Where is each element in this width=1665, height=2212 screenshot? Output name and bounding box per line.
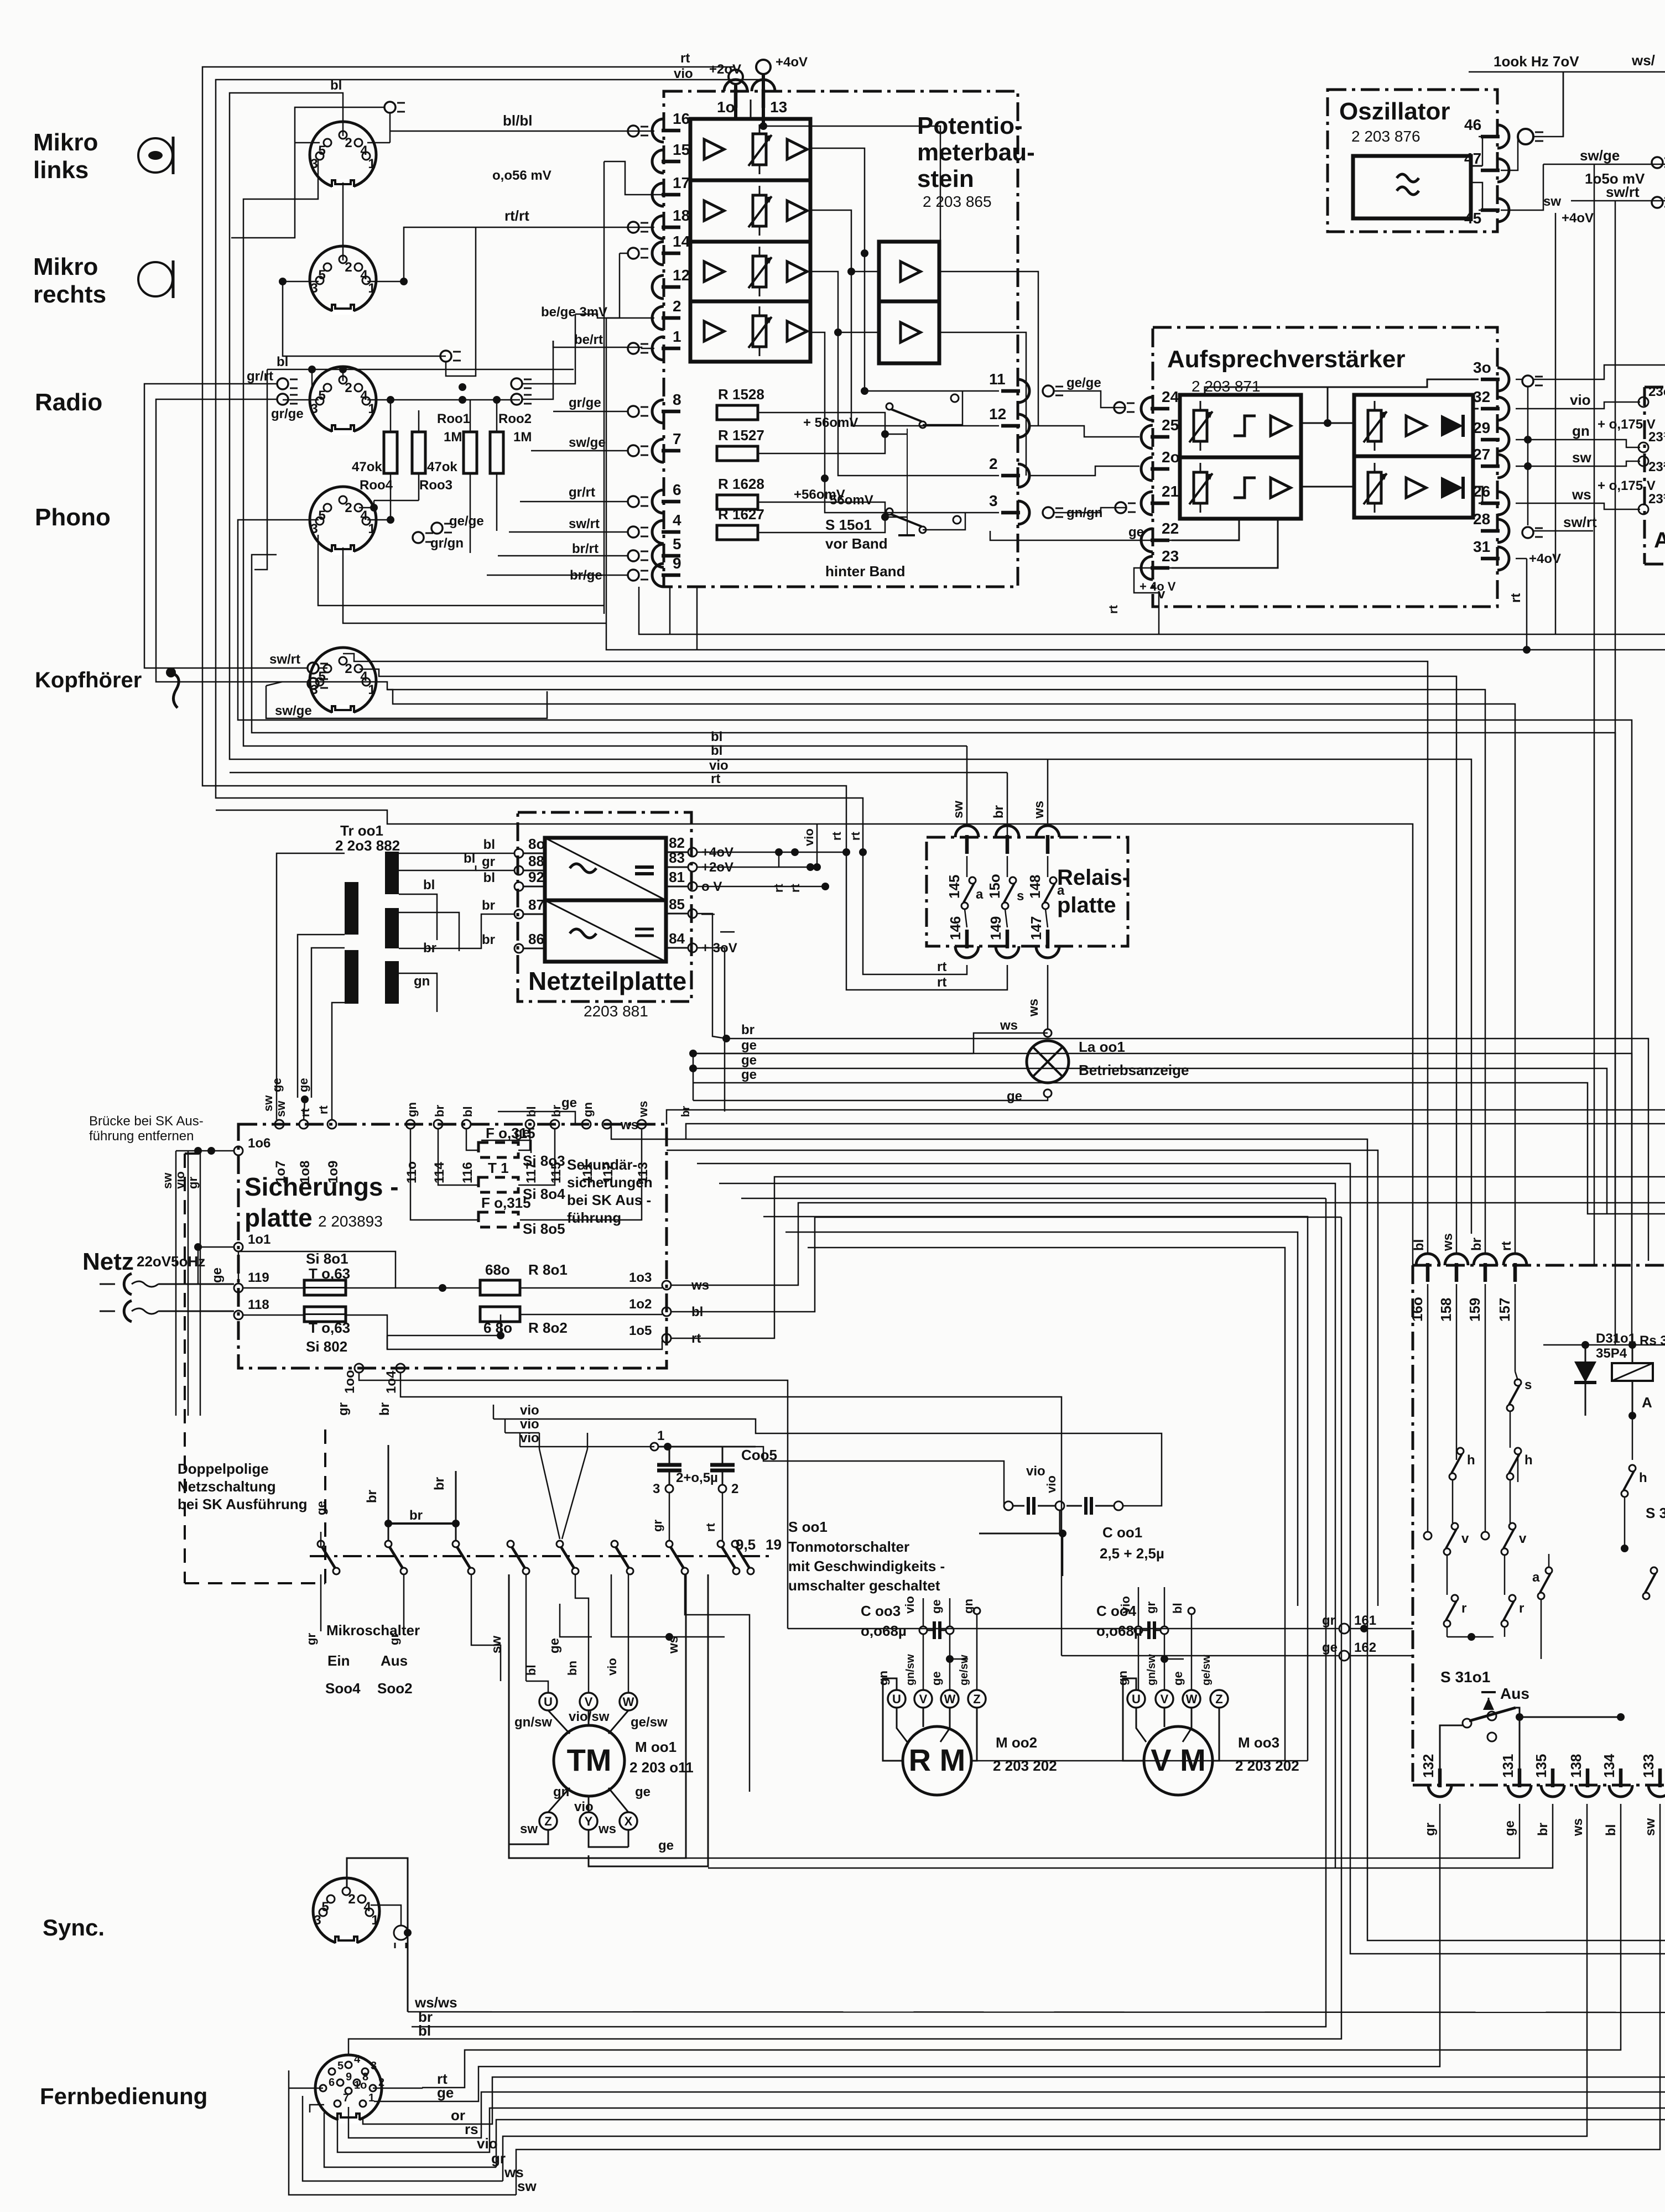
svg-text:rechts: rechts xyxy=(33,281,106,308)
terminal 1o5 xyxy=(629,1323,701,1346)
svg-text:sw: sw xyxy=(520,1822,538,1837)
label VM colors xyxy=(1116,1654,1213,1686)
svg-text:Z: Z xyxy=(973,1692,980,1706)
terminal 23o xyxy=(1638,384,1665,407)
svg-text:Aus: Aus xyxy=(381,1652,408,1669)
terminal 85 netzteil right xyxy=(666,896,715,921)
svg-text:gn: gn xyxy=(405,1102,419,1117)
svg-text:C oo3: C oo3 xyxy=(861,1603,901,1619)
svg-text:Y: Y xyxy=(585,1814,593,1828)
svg-text:1o4: 1o4 xyxy=(384,1370,399,1394)
svg-text:U: U xyxy=(892,1692,901,1706)
svg-text:M oo1: M oo1 xyxy=(635,1739,677,1755)
connector pin 149 relais bottom xyxy=(987,916,1019,958)
wire bus m6 xyxy=(387,690,1515,1254)
wire amp ch3 out xyxy=(810,272,999,476)
label Mikro rechts xyxy=(33,253,106,308)
label Radio xyxy=(35,389,102,416)
wire sw drop1 xyxy=(471,1574,501,1681)
connector pin 4 potbaustein xyxy=(652,512,681,544)
svg-text:ge/ge: ge/ge xyxy=(1066,375,1101,390)
resistor R1528 xyxy=(717,386,764,420)
terminal kopfh b xyxy=(308,678,328,689)
switch tonmotor 8 xyxy=(717,1541,740,1574)
wire 157 drop xyxy=(1515,1284,1516,1371)
wire mikro rechts right xyxy=(404,227,654,281)
module box right partial xyxy=(1645,387,1665,564)
svg-text:R 1628: R 1628 xyxy=(718,476,764,492)
svg-text:rt: rt xyxy=(849,831,862,841)
wire tm u xyxy=(526,1574,548,1693)
label Netz xyxy=(82,1248,205,1275)
motor terminal V xyxy=(565,1661,597,1710)
wire amp ch4 out xyxy=(810,332,999,513)
wire Coo1 down xyxy=(1062,1533,1064,1576)
module box Potentiometerbaustein xyxy=(664,91,1018,587)
svg-text:147: 147 xyxy=(1028,916,1044,940)
svg-text:br: br xyxy=(433,1105,446,1117)
svg-text:rt: rt xyxy=(937,975,946,990)
label be/ge 3mV xyxy=(541,305,607,320)
svg-text:3: 3 xyxy=(310,521,318,536)
connector pin 148 relais xyxy=(1027,801,1059,899)
svg-text:5: 5 xyxy=(337,2060,344,2072)
wire Coo1 feeds xyxy=(756,1447,1045,1506)
label 1ookHz xyxy=(1494,53,1579,70)
wire fern gr xyxy=(324,2112,1665,2167)
svg-text:1o6: 1o6 xyxy=(248,1136,270,1151)
motor RM xyxy=(903,1726,971,1795)
svg-text:a: a xyxy=(976,887,984,902)
amp 2 row1 xyxy=(901,262,920,281)
svg-text:116: 116 xyxy=(460,1162,475,1183)
label M oo1 xyxy=(629,1739,694,1776)
label ws fern xyxy=(504,2164,524,2180)
mains plug lower xyxy=(100,1301,234,1322)
svg-text:1o1: 1o1 xyxy=(248,1232,270,1247)
svg-text:S oo1: S oo1 xyxy=(788,1519,828,1535)
wire 3o out xyxy=(1516,365,1665,379)
svg-text:sw/rt: sw/rt xyxy=(569,517,600,531)
terminal 5 xyxy=(628,550,648,561)
svg-text:2 203 o11: 2 203 o11 xyxy=(629,1759,694,1776)
connector pin 135 bottom xyxy=(1533,1754,1564,1797)
terminal 11o sicherung xyxy=(404,1102,419,1183)
connector pin 45 oszillator xyxy=(1464,199,1509,227)
svg-text:br/rt: br/rt xyxy=(572,541,599,556)
svg-text:2: 2 xyxy=(345,380,352,395)
connector pin 1 potbaustein xyxy=(652,328,681,360)
fuse Si8o2 xyxy=(304,1307,350,1355)
svg-text:Brücke bei SK Aus-: Brücke bei SK Aus- xyxy=(89,1114,204,1129)
wire 22 23 xyxy=(990,525,1176,634)
wire tm frame xyxy=(509,1574,708,1866)
wire 3o xyxy=(1328,379,1479,387)
label o,o56 mV xyxy=(492,168,551,183)
svg-text:+ o,175 V: + o,175 V xyxy=(1598,417,1656,432)
svg-text:2 203893: 2 203893 xyxy=(318,1213,383,1230)
terminal 1o1 xyxy=(234,1232,270,1251)
svg-text:5: 5 xyxy=(318,268,325,283)
wire diode top xyxy=(1543,1341,1665,1349)
wire resistor tops xyxy=(391,400,497,432)
wire 82 +40V xyxy=(697,848,850,867)
connector pin 7 potbaustein xyxy=(652,430,681,462)
terminal 13 top xyxy=(756,60,771,74)
svg-text:27: 27 xyxy=(1473,446,1490,463)
label gr/rt p6 xyxy=(569,485,595,500)
wire 11 to 24 xyxy=(1054,391,1125,408)
wire rt drop xyxy=(1508,559,1531,654)
switch tonmotor 1 xyxy=(318,1541,340,1574)
svg-text:sw: sw xyxy=(1543,194,1561,209)
wire 15-17 xyxy=(604,161,678,614)
svg-text:vio: vio xyxy=(1044,1475,1058,1493)
svg-text:9: 9 xyxy=(346,2071,352,2083)
label M oo2 xyxy=(993,1734,1057,1774)
wire 158 drop xyxy=(1456,1284,1458,1460)
svg-text:23¹: 23¹ xyxy=(1648,430,1665,445)
svg-text:2 203 202: 2 203 202 xyxy=(1235,1757,1299,1774)
svg-text:23²: 23² xyxy=(1648,460,1665,474)
svg-text:sw: sw xyxy=(160,1172,174,1189)
wire poti bottom drops xyxy=(670,587,697,650)
wire amp2 out1 xyxy=(939,272,1038,426)
svg-text:2: 2 xyxy=(345,661,352,676)
svg-text:ge: ge xyxy=(635,1785,651,1799)
wire drop x xyxy=(685,1574,750,1792)
wire amp2 in2 xyxy=(838,332,879,333)
svg-text:6: 6 xyxy=(329,2077,335,2089)
svg-text:a: a xyxy=(1532,1570,1540,1585)
connector pin 12 potbaustein xyxy=(652,267,690,299)
svg-text:Phono: Phono xyxy=(35,504,111,531)
wire right sw verts xyxy=(1447,1371,1518,1595)
wire fuse3 loop xyxy=(466,1129,530,1150)
svg-text:sw/ge: sw/ge xyxy=(569,435,606,450)
terminal 1o8 sicherung xyxy=(298,1108,313,1183)
terminal 118 xyxy=(234,1297,269,1319)
motor RM terminal U xyxy=(888,1690,906,1708)
svg-text:135: 135 xyxy=(1533,1754,1549,1778)
svg-text:ge: ge xyxy=(314,1501,328,1515)
connector Fernbedienung DIN xyxy=(315,2053,384,2124)
svg-text:Soo2: Soo2 xyxy=(377,1680,413,1697)
svg-text:br: br xyxy=(680,1106,692,1117)
svg-text:bei SK Ausführung: bei SK Ausführung xyxy=(178,1496,307,1512)
svg-text:17: 17 xyxy=(673,174,690,191)
svg-text:bl: bl xyxy=(483,870,495,885)
wire R8o2 wires xyxy=(387,1314,662,1349)
wire fern rt xyxy=(373,1804,1621,2088)
wire r out xyxy=(1447,1627,1505,1641)
svg-text:gr/ge: gr/ge xyxy=(271,406,304,421)
svg-text:bl: bl xyxy=(277,354,288,369)
svg-text:mit Geschwindigkeits -: mit Geschwindigkeits - xyxy=(788,1558,945,1574)
terminal 115 sicherung xyxy=(549,1105,564,1183)
svg-text:v: v xyxy=(1519,1531,1527,1546)
wire 13 down xyxy=(759,110,940,242)
svg-text:Ein: Ein xyxy=(327,1652,350,1669)
svg-text:rt: rt xyxy=(680,51,690,66)
connector Radio pin wires xyxy=(283,383,520,404)
wire fern ws/ws xyxy=(408,2012,1665,2012)
icon microphone right xyxy=(138,260,173,298)
terminal 83 netzteil right xyxy=(666,849,733,875)
motor RM terminal Z xyxy=(968,1690,986,1708)
terminal 1 xyxy=(628,343,648,354)
transformer primary bars xyxy=(345,882,358,1004)
wire ge low2 xyxy=(481,1125,531,1153)
svg-text:5: 5 xyxy=(673,535,681,552)
svg-text:3: 3 xyxy=(310,156,318,171)
connector Sync DIN xyxy=(313,1878,379,1947)
connector pin 131 bottom xyxy=(1500,1754,1531,1797)
svg-text:1: 1 xyxy=(368,281,375,296)
terminal 1o3 xyxy=(629,1270,709,1293)
connector pin 134 bottom xyxy=(1601,1754,1632,1797)
svg-text:gr/rt: gr/rt xyxy=(569,485,595,500)
wire coo3 tops xyxy=(923,1598,950,1626)
wire S31o1 box xyxy=(1440,1708,1523,1782)
svg-text:Relais-: Relais- xyxy=(1057,865,1130,890)
svg-text:7: 7 xyxy=(673,430,681,447)
svg-text:ws: ws xyxy=(1026,999,1041,1017)
svg-text:1: 1 xyxy=(673,328,681,345)
svg-text:R 1627: R 1627 xyxy=(718,506,764,523)
connector pin 3o aufspr right xyxy=(1473,359,1509,391)
svg-text:24: 24 xyxy=(1162,388,1179,405)
label Coo3 colors xyxy=(903,1596,975,1614)
svg-text:2: 2 xyxy=(989,455,998,472)
psu top diag xyxy=(545,838,666,900)
connector pin 24 aufspr xyxy=(1141,388,1179,420)
terminal ge lamp xyxy=(1007,1089,1052,1104)
svg-text:sw: sw xyxy=(951,801,966,818)
title Netzteilplatte xyxy=(528,967,686,1020)
terminal 1o6 xyxy=(234,1136,270,1155)
wire 162 xyxy=(1062,1655,1413,1657)
svg-text:47: 47 xyxy=(1464,150,1481,167)
svg-text:15: 15 xyxy=(673,141,690,158)
terminal 11 right xyxy=(1043,385,1063,397)
svg-text:9,5: 9,5 xyxy=(736,1536,756,1553)
svg-text:bl/bl: bl/bl xyxy=(503,112,532,129)
wire mikro rechts left xyxy=(283,281,446,356)
label Bruecke xyxy=(89,1114,204,1144)
power supply inner box xyxy=(545,838,666,962)
svg-text:T 1: T 1 xyxy=(488,1160,509,1176)
svg-text:o,o56 mV: o,o56 mV xyxy=(492,168,551,183)
svg-text:1o3: 1o3 xyxy=(629,1270,652,1285)
terminal 24 left xyxy=(1114,402,1135,413)
wire ge drop xyxy=(560,1604,592,1637)
label S oo1 block xyxy=(788,1519,945,1594)
svg-text:r: r xyxy=(1519,1601,1524,1616)
wire relais drops xyxy=(965,856,1048,927)
wire bus m8 xyxy=(252,555,1615,1345)
svg-text:gn: gn xyxy=(581,1102,595,1117)
wire relay xyxy=(1628,1344,1652,1420)
wire be/ge xyxy=(575,314,654,318)
svg-text:Tr oo1: Tr oo1 xyxy=(340,822,383,839)
svg-text:+4oV: +4oV xyxy=(776,55,808,70)
svg-text:gr: gr xyxy=(336,1402,351,1416)
connector pin 1o xyxy=(717,80,747,116)
label Coo4 xyxy=(1096,1603,1142,1639)
label A partial xyxy=(1654,528,1665,552)
svg-text:gr/rt: gr/rt xyxy=(247,369,273,384)
svg-text:T o,63: T o,63 xyxy=(309,1265,350,1282)
label ge fern xyxy=(437,2084,454,2101)
wire sich r6 xyxy=(951,1139,1665,1940)
wire sw/ge right xyxy=(1543,147,1665,187)
connector pin 31 aufspr right xyxy=(1473,538,1509,570)
wire R8o1 wires xyxy=(396,1284,662,1292)
switch tonmotor 7 xyxy=(666,1541,688,1574)
svg-text:W: W xyxy=(623,1695,634,1709)
amp row 4 xyxy=(704,306,807,356)
dashed box Doppelpolige xyxy=(185,1154,325,1583)
wire VM arms xyxy=(1136,1708,1219,1761)
label Mikro links xyxy=(33,129,98,184)
svg-text:+ 56omV: + 56omV xyxy=(803,415,858,430)
capacitor Coo3 xyxy=(919,1621,954,1639)
svg-text:5: 5 xyxy=(318,388,325,403)
terminal 233 xyxy=(1638,492,1665,514)
amp row 1 xyxy=(704,124,807,174)
wire trafo prim ge xyxy=(270,935,345,1120)
terminal right edge b xyxy=(1652,197,1665,208)
connector pin 14 potbaustein xyxy=(652,233,690,265)
svg-text:sw/ge: sw/ge xyxy=(275,703,312,718)
terminal kopfh a xyxy=(308,662,328,674)
svg-text:32: 32 xyxy=(1473,388,1490,405)
module box Relaisplatte xyxy=(927,837,1128,946)
wire frame 2 xyxy=(216,80,967,974)
svg-text:ws: ws xyxy=(1570,1818,1585,1837)
svg-text:1: 1 xyxy=(657,1428,664,1443)
connector pin 12 potbaustein right xyxy=(989,405,1029,437)
svg-text:3: 3 xyxy=(989,492,998,509)
svg-text:5: 5 xyxy=(318,508,325,523)
svg-text:s: s xyxy=(1017,889,1024,904)
wire ge branch3 xyxy=(693,1067,1665,1214)
terminal 28 xyxy=(1522,527,1543,538)
svg-text:sw: sw xyxy=(1643,1818,1658,1836)
terminal radio right a xyxy=(511,378,532,389)
switch h right1 xyxy=(1449,1448,1475,1480)
resistor R1628 xyxy=(717,476,764,509)
svg-text:ge: ge xyxy=(1007,1089,1022,1104)
svg-text:85: 85 xyxy=(669,896,685,912)
svg-text:F o,315: F o,315 xyxy=(481,1194,531,1211)
wire sync pin2 xyxy=(371,1905,412,1937)
label +56omV b xyxy=(794,487,845,502)
wire relay down xyxy=(1632,1416,1633,1460)
svg-text:S 31o1: S 31o1 xyxy=(1440,1668,1490,1686)
svg-text:rt: rt xyxy=(1499,1241,1514,1251)
connector pin 15 potbaustein xyxy=(652,141,690,173)
svg-text:14: 14 xyxy=(673,233,690,250)
terminal 92 netzteil xyxy=(483,869,545,891)
line amp block xyxy=(750,100,752,119)
svg-text:rt: rt xyxy=(316,1105,330,1114)
wire label bl xyxy=(330,78,342,93)
svg-text:platte: platte xyxy=(244,1203,313,1232)
fuse Si8o1 xyxy=(304,1250,350,1295)
svg-text:vio: vio xyxy=(520,1431,539,1446)
wire rec out xyxy=(1473,409,1482,503)
terminal 87 netzteil xyxy=(482,896,545,919)
svg-text:Mikro: Mikro xyxy=(33,129,98,156)
svg-text:Roo2: Roo2 xyxy=(498,411,532,426)
svg-text:3: 3 xyxy=(371,2060,377,2072)
svg-text:rt: rt xyxy=(772,883,785,893)
title Relaisplatte xyxy=(1057,865,1130,917)
svg-text:rt: rt xyxy=(937,959,946,974)
terminal 8o netzteil xyxy=(483,836,545,858)
wire sich r13 xyxy=(808,1248,1285,1761)
svg-text:25: 25 xyxy=(1162,416,1179,434)
svg-text:V: V xyxy=(919,1692,928,1706)
svg-text:sw/rt: sw/rt xyxy=(1563,514,1597,530)
motor TM xyxy=(554,1725,625,1796)
svg-text:15o: 15o xyxy=(986,874,1003,899)
label gr/ge xyxy=(271,406,304,421)
label Sync xyxy=(43,1914,105,1940)
svg-text:3: 3 xyxy=(310,281,318,296)
connector pin 15o relais xyxy=(986,805,1019,899)
connector Phono DIN xyxy=(310,487,376,555)
svg-text:28: 28 xyxy=(1473,510,1490,528)
wire mikro rechts vert xyxy=(342,182,344,260)
svg-text:148: 148 xyxy=(1027,875,1043,899)
svg-text:5: 5 xyxy=(321,1900,329,1914)
wire a drop xyxy=(1541,1554,1549,1659)
wire 81 xyxy=(697,883,829,890)
motor VM xyxy=(1144,1726,1213,1795)
wire S15o1 actuator xyxy=(898,429,915,535)
svg-text:bl: bl xyxy=(330,78,342,93)
wire br drop xyxy=(680,1053,693,1117)
svg-text:gr: gr xyxy=(1423,1823,1438,1836)
svg-text:or: or xyxy=(451,2107,465,2124)
title Potentiometerbaustein xyxy=(917,112,1035,210)
svg-text:2: 2 xyxy=(345,135,352,150)
svg-text:R 8o2: R 8o2 xyxy=(528,1319,568,1336)
svg-text:br: br xyxy=(549,1105,563,1117)
svg-text:br: br xyxy=(409,1508,423,1523)
label bl/bl xyxy=(503,112,532,129)
switch a right xyxy=(1532,1567,1552,1599)
svg-text:Z: Z xyxy=(1215,1692,1222,1706)
svg-text:R M: R M xyxy=(909,1743,966,1777)
switch 9,5 xyxy=(732,1536,782,1574)
label gr/ge p8 xyxy=(569,395,601,410)
psu bot diag xyxy=(545,900,666,962)
svg-text:C oo1: C oo1 xyxy=(1102,1524,1142,1541)
module box right lower xyxy=(1413,1265,1665,1785)
relay contact a2 xyxy=(1042,877,1065,909)
wire bus m10 xyxy=(230,772,1007,774)
svg-text:ws: ws xyxy=(1032,801,1047,819)
connector Mikro rechts DIN xyxy=(310,246,376,315)
terminal mikro rechts bottom xyxy=(440,351,461,362)
label ge/ge xyxy=(1066,375,1101,390)
svg-text:4: 4 xyxy=(354,2053,361,2065)
svg-text:Si 8o5: Si 8o5 xyxy=(523,1220,565,1237)
